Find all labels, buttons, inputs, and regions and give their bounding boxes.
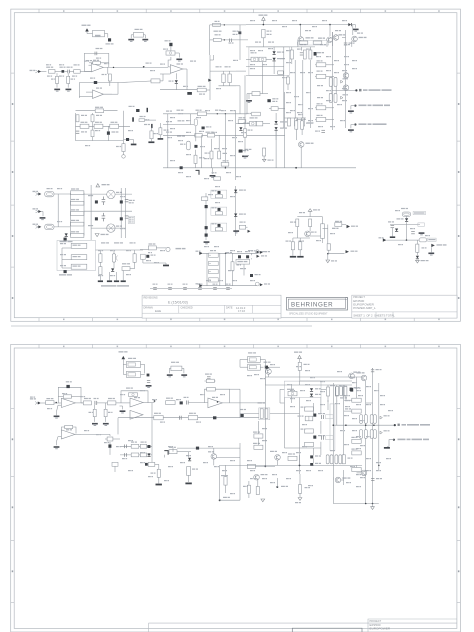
resistor R219	[343, 387, 346, 396]
resistor R32	[110, 124, 119, 128]
border tick	[38, 318, 40, 322]
wire	[225, 485, 227, 493]
value label	[287, 384, 292, 385]
wire	[141, 364, 145, 366]
registered mark	[345, 298, 347, 300]
value label	[299, 212, 305, 213]
border tick	[252, 9, 254, 13]
value label	[262, 440, 267, 441]
wire	[78, 83, 80, 99]
wire	[144, 35, 146, 39]
value label	[251, 250, 255, 251]
title block divider	[178, 305, 180, 313]
wire	[341, 479, 344, 481]
value label	[153, 284, 158, 285]
wire	[195, 163, 197, 167]
diode bridge D15	[95, 217, 98, 220]
sheet outer border	[11, 9, 461, 321]
wire	[92, 137, 94, 141]
wire	[246, 94, 248, 114]
emitter resistor	[364, 430, 367, 439]
diode D11	[275, 121, 278, 125]
wire	[178, 53, 180, 58]
value label	[380, 395, 385, 396]
value label	[60, 243, 66, 244]
value label	[144, 124, 150, 125]
diode D205 dark	[313, 414, 316, 417]
wire	[144, 365, 146, 374]
wire	[355, 25, 357, 28]
resistor R217	[327, 387, 330, 396]
border tick	[306, 9, 308, 13]
value label	[66, 429, 72, 430]
wire	[309, 227, 311, 231]
wire	[344, 399, 352, 401]
wire	[210, 39, 214, 41]
transistor Q204	[254, 474, 260, 480]
value label	[67, 67, 73, 68]
wire	[143, 402, 155, 404]
BEHRINGER logo box outer	[287, 297, 348, 310]
label +15V	[82, 25, 91, 26]
value label	[312, 26, 317, 27]
wire	[162, 74, 164, 81]
value label	[178, 120, 185, 121]
resistor R42	[271, 107, 278, 111]
label E	[33, 224, 39, 225]
value label	[306, 400, 311, 401]
wire	[329, 25, 331, 36]
capacitor C212 polarized	[310, 455, 313, 458]
emitter resistor	[326, 455, 329, 464]
value label	[342, 20, 347, 21]
wire	[99, 275, 101, 281]
wire row3	[163, 134, 252, 136]
value label	[360, 477, 365, 478]
resistor R227	[247, 464, 255, 468]
connector circle out1	[255, 250, 259, 254]
ground bar	[163, 265, 169, 267]
wire	[217, 457, 241, 459]
resistor R34	[150, 131, 153, 139]
border digit	[438, 319, 440, 321]
capacitor C11c dark bar	[132, 117, 134, 121]
resistor R210	[166, 401, 175, 405]
value label	[232, 280, 237, 281]
value label	[170, 117, 175, 118]
label DRAIN TO TERMINAL	[359, 123, 387, 125]
ground bar	[107, 280, 112, 282]
wire	[123, 364, 126, 366]
long rail wire	[220, 464, 363, 466]
value label	[244, 155, 249, 156]
ground	[66, 89, 72, 92]
svg-text:SHEET 1 OF 2 SHEETS TOTAL: SHEET 1 OF 2 SHEETS TOTAL	[353, 313, 395, 317]
value label	[352, 418, 357, 419]
connector arrow J4	[199, 252, 203, 255]
value label	[152, 399, 157, 400]
capacitor C205	[207, 377, 211, 379]
wire	[240, 417, 259, 419]
diode D23	[218, 224, 221, 227]
wire	[240, 402, 265, 404]
feedback wire	[84, 53, 109, 71]
wire	[326, 75, 334, 77]
value label	[286, 478, 291, 479]
border tick	[457, 539, 461, 541]
connector mains N	[36, 210, 42, 213]
label 47u	[192, 469, 198, 470]
resistor R230	[131, 444, 139, 448]
node junction	[329, 24, 331, 26]
diode D202	[310, 388, 313, 392]
border digit	[63, 346, 65, 348]
module outline	[249, 47, 290, 75]
svg-text:REVISIONS: REVISIONS	[144, 296, 158, 300]
resistor R54	[291, 242, 294, 250]
wire	[300, 447, 321, 449]
value label	[80, 396, 85, 397]
value label	[250, 470, 255, 471]
label 1K	[237, 264, 242, 265]
value label	[287, 389, 294, 390]
value label	[122, 458, 127, 459]
value label	[320, 381, 325, 382]
resistor R2	[74, 70, 81, 74]
wire	[295, 129, 297, 140]
value label	[306, 92, 311, 93]
value label	[315, 455, 321, 456]
value label	[308, 120, 313, 121]
capacitor CX3	[71, 212, 84, 216]
connector arrow out	[248, 230, 251, 233]
wire	[105, 417, 107, 422]
value label	[233, 31, 239, 32]
wire	[342, 224, 346, 226]
value label	[357, 33, 363, 34]
capacitor C216 tall	[187, 467, 191, 476]
capacitor CB1	[153, 287, 157, 289]
junction	[264, 466, 266, 468]
capacitor C11 polarized	[136, 109, 139, 112]
value label	[236, 176, 241, 177]
value label	[310, 377, 315, 378]
wire	[211, 139, 213, 151]
value label	[59, 76, 64, 77]
wire	[124, 139, 127, 141]
value label	[57, 221, 62, 222]
value label	[116, 446, 121, 447]
sheet divider	[375, 312, 377, 318]
label TO THERMAL SWITCH	[398, 424, 431, 426]
value label	[251, 52, 257, 53]
value label	[356, 486, 361, 487]
wire	[309, 211, 311, 216]
relay K203 box	[248, 357, 261, 363]
capacitor CB5	[213, 287, 217, 289]
wire	[322, 217, 324, 224]
value label	[223, 497, 230, 498]
wire	[159, 135, 161, 138]
module outline	[57, 241, 96, 271]
wire	[64, 71, 68, 73]
junction	[217, 401, 219, 403]
label GND	[331, 260, 337, 261]
wire	[143, 262, 166, 264]
resistor circle detail	[261, 58, 264, 61]
value label	[129, 200, 135, 201]
value label	[398, 244, 403, 245]
junction	[225, 167, 227, 169]
resistor R238	[107, 437, 113, 441]
value label	[330, 385, 335, 386]
value label	[160, 422, 165, 423]
value label	[230, 110, 235, 111]
sheet 2 title block top line	[149, 622, 458, 624]
sheet 2 frame	[11, 344, 461, 632]
wire	[240, 413, 259, 415]
resistor R42a	[221, 163, 229, 167]
wire	[313, 458, 315, 463]
label Q202	[270, 451, 277, 452]
value label	[230, 493, 235, 494]
wire	[299, 474, 301, 485]
wire top	[203, 252, 257, 254]
wire	[131, 34, 133, 36]
border digit	[12, 103, 14, 105]
transistor Q3	[352, 36, 358, 42]
resistor R206	[93, 409, 96, 416]
value label	[199, 131, 204, 132]
label R 1M	[258, 402, 266, 403]
value label	[288, 232, 293, 233]
value label	[317, 60, 323, 61]
junction	[406, 239, 408, 241]
border tick	[199, 344, 201, 348]
border tick	[252, 318, 254, 322]
capacitor C22	[411, 232, 415, 234]
value label	[212, 223, 217, 224]
wire output	[103, 66, 120, 68]
resistor R225	[254, 434, 263, 438]
wire	[326, 64, 334, 66]
border tick	[457, 140, 461, 142]
value label	[213, 284, 218, 285]
value label	[351, 449, 357, 450]
value label	[218, 280, 223, 281]
label U2A	[177, 63, 184, 64]
value label	[280, 128, 287, 129]
wire	[120, 454, 152, 456]
wire	[175, 84, 177, 90]
value label	[302, 446, 307, 447]
resistor R42b	[214, 177, 221, 180]
wire	[125, 188, 127, 238]
value label	[71, 79, 76, 80]
wire	[257, 438, 259, 445]
value label	[356, 404, 361, 405]
wire	[151, 139, 153, 142]
value label	[140, 462, 145, 463]
value label	[240, 409, 246, 410]
wire	[345, 385, 347, 387]
diode mark	[380, 431, 382, 434]
capacitor CX5	[71, 234, 84, 238]
svg-text:E (15/01/03): E (15/01/03)	[168, 300, 188, 304]
value label	[339, 385, 344, 386]
wire	[239, 389, 241, 403]
value label	[226, 284, 231, 285]
wire	[264, 377, 266, 385]
border digit	[12, 570, 14, 572]
value label	[120, 394, 125, 395]
wire	[332, 477, 334, 480]
wire	[327, 225, 329, 245]
wire	[118, 417, 240, 419]
value label	[212, 190, 217, 191]
wire	[81, 433, 110, 435]
value label	[290, 406, 295, 407]
value label	[268, 160, 274, 161]
border digit	[458, 235, 460, 237]
wire	[76, 140, 124, 142]
value label	[199, 94, 205, 95]
wire	[232, 270, 234, 285]
emitter resistor RE2	[334, 77, 337, 86]
wire	[57, 437, 59, 442]
border digit	[170, 10, 172, 12]
wire	[97, 402, 108, 404]
resistor R51	[215, 212, 222, 215]
wire	[310, 235, 321, 237]
project box divider	[352, 311, 457, 313]
value label	[186, 154, 191, 155]
wire	[109, 448, 111, 452]
ground	[142, 39, 148, 42]
value label	[151, 255, 156, 256]
wire	[299, 25, 301, 36]
diode D22	[218, 208, 221, 211]
value label	[72, 76, 77, 77]
value label	[73, 256, 81, 257]
emitter resistor	[370, 415, 373, 424]
wire	[279, 389, 281, 403]
value label	[366, 386, 371, 387]
wire	[299, 493, 301, 497]
value label	[316, 56, 321, 57]
resistor R246	[352, 409, 361, 413]
ground	[54, 416, 60, 419]
value label	[203, 462, 208, 463]
wire	[283, 66, 285, 128]
sheet inner border	[14, 348, 457, 628]
wire	[167, 114, 169, 168]
value label	[422, 247, 427, 248]
border digit	[170, 319, 172, 321]
connector dark top	[64, 238, 67, 241]
capacitor CB2	[168, 287, 172, 289]
wire	[240, 366, 248, 368]
transistor Q207	[335, 477, 341, 483]
border digit	[117, 10, 119, 12]
capacitor C18	[102, 213, 106, 222]
value label	[84, 398, 91, 399]
label caps list	[101, 285, 129, 286]
wire	[278, 108, 285, 110]
title block divider	[224, 305, 226, 313]
border digit	[331, 319, 333, 321]
cell outline 2	[211, 207, 227, 215]
value label	[116, 146, 121, 147]
wire	[182, 367, 184, 369]
wire	[350, 106, 352, 110]
wire	[239, 403, 241, 418]
rail wire	[372, 368, 374, 504]
wire	[109, 434, 111, 436]
capacitor C16 polarized	[239, 150, 243, 153]
value label	[270, 364, 275, 365]
value label	[305, 487, 311, 488]
resistor R208	[65, 425, 73, 428]
wire	[61, 248, 63, 268]
diode mark	[341, 80, 343, 83]
value label	[204, 158, 209, 159]
wire	[310, 216, 322, 218]
value label	[286, 62, 291, 63]
probe mark	[196, 170, 200, 174]
diode D27	[395, 229, 398, 233]
junction dark	[108, 444, 111, 447]
value label	[205, 110, 210, 111]
resistor R28	[76, 115, 79, 122]
wire	[151, 446, 153, 464]
value label	[326, 90, 331, 91]
value label	[305, 30, 311, 31]
value label	[140, 452, 145, 453]
emitter resistor row outline	[297, 40, 329, 45]
border tick	[11, 140, 15, 142]
label U201A	[66, 396, 72, 397]
value label	[335, 30, 341, 31]
wire	[391, 228, 393, 236]
value label	[180, 144, 186, 145]
resistor R66	[278, 71, 284, 74]
wire	[236, 123, 250, 125]
capacitor C6 polarized	[187, 92, 192, 95]
wire	[172, 448, 174, 452]
wire	[260, 366, 263, 368]
resistor R244	[344, 387, 347, 396]
wire	[114, 462, 116, 472]
wire	[177, 451, 191, 453]
value label	[282, 26, 287, 27]
value label	[89, 412, 94, 413]
value label	[246, 113, 251, 114]
capacitor C211 polarized	[241, 414, 244, 417]
label 1K21	[239, 117, 246, 118]
ground bar	[98, 280, 103, 282]
value label	[356, 448, 361, 449]
wire	[218, 135, 220, 151]
wire	[275, 113, 277, 120]
wire	[83, 193, 85, 236]
value label	[210, 250, 216, 251]
wire	[263, 156, 265, 159]
capacitor C204	[186, 401, 188, 405]
wire	[235, 186, 237, 236]
mid connector arrow	[266, 366, 269, 369]
capacitor CX1	[71, 191, 84, 195]
